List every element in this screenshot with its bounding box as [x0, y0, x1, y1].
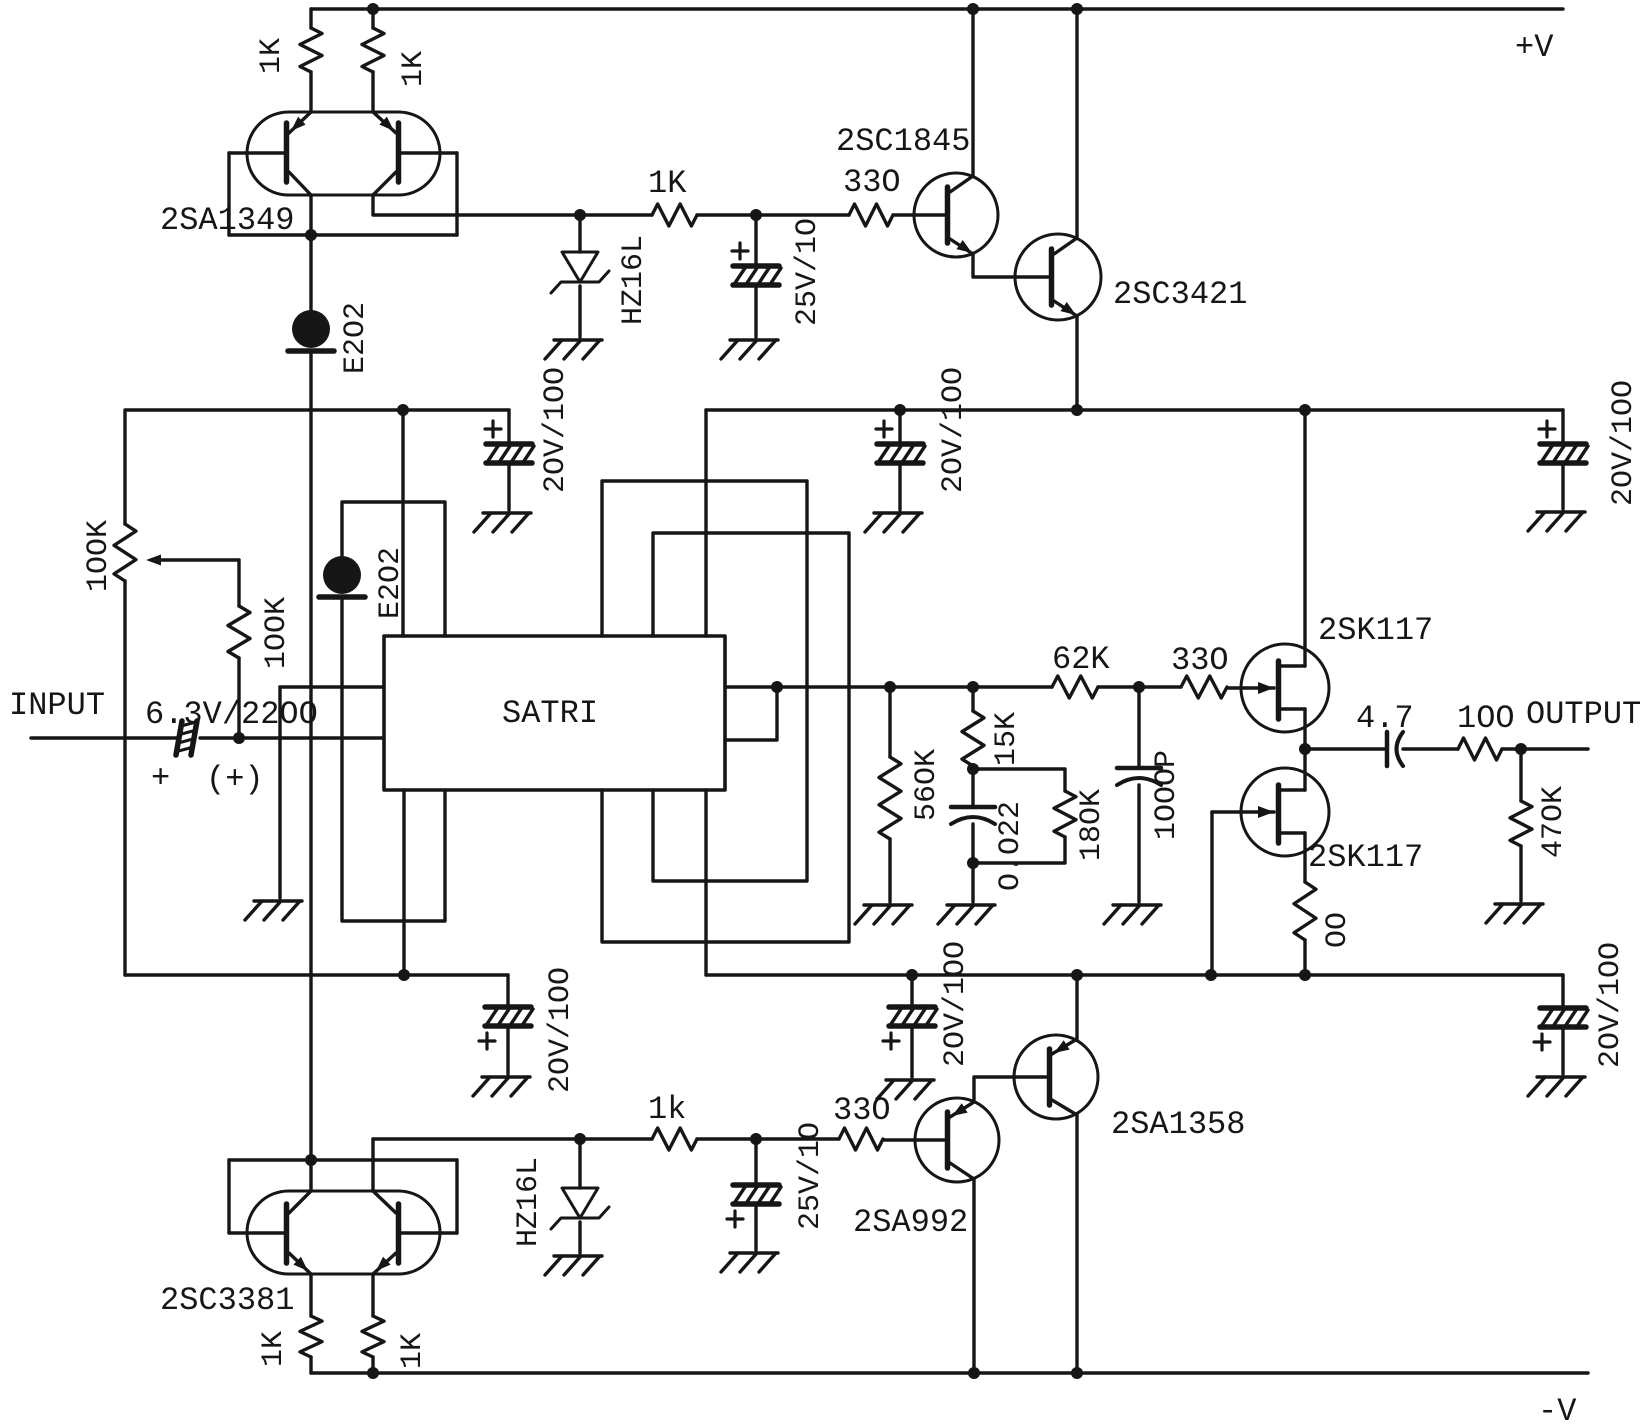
svg-text:2OV/1OO: 2OV/1OO — [939, 941, 973, 1067]
resistor R17 1K bottom-right — [371, 1274, 374, 1316]
wire J2 source — [1303, 833, 1306, 882]
Q8 base bar — [396, 1204, 402, 1263]
resistor R2 1K (right emitter) — [371, 9, 374, 28]
svg-text:HZ16L: HZ16L — [617, 235, 651, 325]
node output — [1299, 743, 1311, 755]
ground C7 — [1113, 903, 1161, 906]
wire Q3 emitter to Q4 base — [973, 254, 1049, 277]
wire Q7 base to box — [229, 1231, 286, 1234]
current diode CRD1 E202 — [309, 235, 312, 312]
wire R10 to J1 gate — [1227, 686, 1274, 689]
transistor Q5 2SA992 — [915, 1098, 999, 1182]
ground C4 — [1537, 510, 1585, 513]
wire SATRI bottom pin x404 — [402, 790, 405, 975]
resistor R11 source 00 — [1294, 882, 1316, 940]
transistor J2 2SK117 lower — [1241, 768, 1329, 856]
Q7 base bar — [284, 1204, 290, 1263]
wire mid rail left y410 — [126, 408, 509, 411]
node top rail / R2 — [367, 3, 379, 15]
svg-text:1K: 1K — [648, 165, 687, 202]
wire Q5 emitter to Q6 base — [974, 1077, 1047, 1102]
svg-text:6.3V/22OO: 6.3V/22OO — [145, 696, 318, 733]
svg-text:47OK: 47OK — [1537, 786, 1571, 858]
Q2 base bar — [396, 123, 402, 182]
node Q4 emitter — [1071, 404, 1083, 416]
capacitor C12 25V/10 bottom — [754, 1139, 757, 1183]
node Q6 collector rail — [1071, 1367, 1083, 1379]
svg-text:1OOOP: 1OOOP — [1150, 750, 1184, 840]
transistor Q1/Q2 2SA1349 dual PNP body — [247, 112, 440, 195]
capacitor C10 20V/100 bottom-mid — [910, 975, 913, 1005]
wire feedback loop A — [602, 481, 807, 881]
svg-text:2SA1349: 2SA1349 — [160, 202, 294, 239]
wire Q4 emitter down — [1075, 316, 1078, 410]
wire J2 drain — [1303, 749, 1306, 790]
node C12 — [750, 1133, 762, 1145]
svg-text:HZ16L: HZ16L — [512, 1157, 546, 1247]
capacitor C4 20V/100 top-right — [1561, 410, 1564, 442]
ground C1 — [730, 338, 778, 341]
node top rail / Q3 collector — [967, 3, 979, 15]
svg-text:1K: 1K — [257, 1331, 291, 1367]
Q8 collector — [373, 1191, 396, 1213]
svg-text:1K: 1K — [396, 1333, 430, 1369]
resistor R8 180K parallel branch — [973, 769, 1065, 791]
ground input stub — [254, 899, 302, 902]
resistor R3 1K bias — [652, 204, 697, 226]
resistor R13 470K — [1519, 749, 1522, 801]
ground R7 net — [947, 903, 995, 906]
wire base box right — [455, 153, 458, 235]
svg-text:1OOK: 1OOK — [260, 597, 294, 669]
svg-text:18OK: 18OK — [1075, 789, 1109, 861]
wire Q4 collector to rail — [1075, 9, 1078, 238]
svg-text:4.7: 4.7 — [1356, 700, 1414, 737]
wire lower rail right y975 — [706, 973, 1563, 976]
node R7 15K — [967, 681, 979, 693]
capacitor C6 0.022 — [971, 769, 974, 807]
Q2 collector — [373, 172, 396, 195]
wire SATRI top pin x706 to rail — [704, 410, 707, 636]
wire SATRI output — [725, 685, 1052, 688]
transistor Q6 2SA1358 — [1014, 1035, 1098, 1119]
svg-text:1OO: 1OO — [1457, 700, 1515, 737]
wire SATRI pin2 stub — [725, 687, 777, 740]
svg-text:33O: 33O — [1171, 642, 1229, 679]
ground D1 — [554, 338, 602, 341]
svg-text:2SC1845: 2SC1845 — [836, 123, 970, 160]
ground R13 — [1495, 902, 1543, 905]
resistor R16 1K bottom-left — [309, 1274, 312, 1316]
svg-text:2OV/1OO: 2OV/1OO — [1594, 942, 1628, 1068]
svg-text:+V: +V — [1515, 29, 1554, 66]
wire R4 to Q3 base — [893, 213, 945, 216]
svg-text:1OOK: 1OOK — [82, 520, 116, 592]
transistor Q3 2SC1845 — [914, 173, 998, 257]
svg-text:25V/1O: 25V/1O — [791, 218, 825, 326]
wire Q6 emitter to rail — [1075, 975, 1078, 1039]
wire mid rail right y410 — [706, 408, 1563, 411]
diode D1 HZ16L zener — [578, 215, 581, 252]
svg-text:E2O2: E2O2 — [374, 547, 408, 619]
wire lower rail left y975 — [125, 973, 508, 976]
node R11 rail — [1299, 969, 1311, 981]
wire base box left bottom — [227, 1160, 230, 1233]
capacitor C9 20V/100 bottom-left — [506, 975, 509, 1005]
svg-text:O.O22: O.O22 — [994, 801, 1028, 891]
resistor R15 330 — [839, 1128, 883, 1150]
transistor Q7/Q8 2SC3381 dual NPN body — [247, 1191, 440, 1274]
svg-text:(+): (+) — [206, 761, 264, 798]
wire Q8 base to box — [399, 1231, 457, 1234]
ground C3 — [874, 511, 922, 514]
resistor R6 560K — [888, 687, 891, 757]
svg-text:OUTPUT: OUTPUT — [1526, 696, 1641, 733]
ground C2 — [483, 511, 531, 514]
Q8 emitter — [373, 1253, 396, 1274]
wire Q8 collector to bias line — [371, 1139, 374, 1191]
svg-text:2SK117: 2SK117 — [1308, 839, 1423, 876]
node C10 — [906, 969, 918, 981]
wire SATRI bottom pin x706 — [704, 790, 707, 975]
node C7 1000P — [1133, 681, 1145, 693]
Q7 emitter — [289, 1253, 311, 1274]
wire base box right bottom — [455, 1160, 458, 1233]
node zener top — [574, 209, 586, 221]
ground C9 — [482, 1075, 530, 1078]
wire SATRI top pin x403 — [401, 410, 404, 636]
node R17 rail — [367, 1367, 379, 1379]
wire -V bottom rail — [311, 1371, 1588, 1374]
wire Q6 collector to -V rail — [1075, 1115, 1078, 1373]
potentiometer VR1 100K — [114, 524, 136, 581]
node bases+collector Q7 — [309, 1160, 312, 1191]
svg-text:+: + — [151, 760, 170, 797]
svg-text:25V/1O: 25V/1O — [794, 1122, 828, 1230]
svg-text:2OV/1OO: 2OV/1OO — [539, 367, 573, 493]
node bases+collector Q1 — [309, 195, 312, 235]
ground D2 — [554, 1254, 602, 1257]
wire to OUTPUT — [1502, 747, 1588, 750]
wire output line — [1305, 747, 1385, 750]
Q2 emitter — [373, 112, 396, 133]
wire J2 gate — [1212, 810, 1274, 813]
wire left column x125 — [123, 410, 126, 524]
svg-text:62K: 62K — [1052, 641, 1110, 678]
wire base box top — [229, 1158, 457, 1161]
op-amp U1 SATRI — [384, 636, 725, 790]
wire input line — [31, 736, 177, 739]
capacitor C11 20V/100 bottom-right — [1561, 975, 1564, 1006]
ground R6 — [864, 903, 912, 906]
node J2 gate rail — [1205, 969, 1217, 981]
capacitor C8 4.7 — [1385, 732, 1390, 766]
resistor R7 15K — [971, 687, 974, 711]
Q1 base bar — [284, 123, 290, 182]
svg-text:2OV/1OO: 2OV/1OO — [1607, 380, 1641, 506]
VR1 wiper arrow — [152, 558, 239, 561]
resistor R5 100K — [237, 560, 240, 606]
node zener bottom — [574, 1133, 586, 1145]
ground C10 — [886, 1078, 934, 1081]
current diode CRD2 E202 loop — [342, 502, 445, 636]
svg-text:INPUT: INPUT — [9, 687, 105, 724]
svg-text:1k: 1k — [648, 1091, 686, 1128]
svg-text:56OK: 56OK — [910, 749, 944, 821]
capacitor C5 6.3V/2200 — [176, 721, 182, 755]
node R13 470K — [1515, 743, 1527, 755]
resistor R4 330 — [849, 204, 893, 226]
wire feedback loop B — [602, 533, 849, 942]
svg-text:1K: 1K — [255, 38, 289, 74]
svg-text:33O: 33O — [843, 164, 901, 201]
svg-text:2SK117: 2SK117 — [1318, 612, 1433, 649]
wire Q1 base to box — [229, 151, 286, 154]
diode D2 HZ16L zener — [578, 1139, 581, 1188]
wire J1 drain to rail — [1303, 410, 1306, 666]
capacitor C2 20V/100 top-left — [507, 410, 510, 442]
wire R15 to Q5 base — [883, 1138, 945, 1141]
capacitor C3 20V/100 top-mid — [898, 410, 901, 442]
resistor R10 330 gate — [1181, 676, 1227, 698]
node parallel top — [967, 763, 979, 775]
wire Q3 collector to rail — [971, 9, 974, 176]
wire J1 source to output node — [1303, 709, 1306, 749]
transistor Q4 2SC3421 — [1015, 234, 1101, 320]
resistor R1 1K (left emitter) — [309, 9, 312, 28]
capacitor C7 1000P — [1137, 687, 1140, 768]
svg-text:OO: OO — [1321, 912, 1355, 948]
wire Q5 collector down — [972, 1179, 975, 1373]
wire +V top rail — [311, 7, 1563, 10]
transistor J1 2SK117 upper — [1241, 644, 1329, 732]
wire to ground R7 net — [971, 863, 974, 902]
wire base box left — [227, 153, 230, 235]
resistor R12 100 — [1458, 738, 1502, 760]
svg-text:2SA992: 2SA992 — [853, 1204, 968, 1241]
svg-text:1K: 1K — [397, 51, 431, 87]
node Q5 collector rail — [968, 1367, 980, 1379]
svg-text:-V: -V — [1538, 1393, 1577, 1426]
wire bottom bias line — [373, 1137, 652, 1140]
svg-text:2OV/1OO: 2OV/1OO — [544, 967, 578, 1093]
node parallel bottom — [967, 857, 979, 869]
resistor R9 62K — [1052, 676, 1098, 698]
Q1 collector — [289, 172, 311, 195]
Q7 collector — [289, 1191, 311, 1213]
ground C11 — [1537, 1075, 1585, 1078]
capacitor C1 25V/10 — [754, 215, 757, 264]
ground C12 — [730, 1251, 778, 1254]
node J1 drain — [1299, 404, 1311, 416]
node C3 — [894, 404, 906, 416]
wire SATRI pin ground stub — [280, 685, 384, 688]
svg-text:SATRI: SATRI — [502, 695, 598, 732]
wire base box bottom — [229, 233, 457, 236]
svg-text:33O: 33O — [833, 1092, 891, 1129]
svg-text:E2O2: E2O2 — [339, 302, 373, 374]
node Q6 emitter rail — [1071, 969, 1083, 981]
Q1 emitter — [289, 112, 311, 133]
wire R3 to node — [697, 213, 849, 216]
svg-text:2SC3381: 2SC3381 — [160, 1282, 294, 1319]
node cap C1 — [750, 209, 762, 221]
svg-text:15K: 15K — [990, 712, 1024, 766]
node R6 560K — [884, 681, 896, 693]
node input/R5 — [233, 732, 245, 744]
svg-text:2SC3421: 2SC3421 — [1113, 276, 1247, 313]
node mid rail / SATRI pin — [397, 404, 409, 416]
node SATRI bottom pin — [398, 969, 410, 981]
node output stub — [771, 681, 783, 693]
wire Q2 base to box — [399, 151, 457, 154]
svg-text:2SA1358: 2SA1358 — [1111, 1106, 1245, 1143]
wire Q2 collector to bias line — [373, 195, 652, 215]
svg-text:2OV/1OO: 2OV/1OO — [937, 367, 971, 493]
resistor R14 1k — [652, 1128, 697, 1150]
node top rail / Q4 collector — [1071, 3, 1083, 15]
